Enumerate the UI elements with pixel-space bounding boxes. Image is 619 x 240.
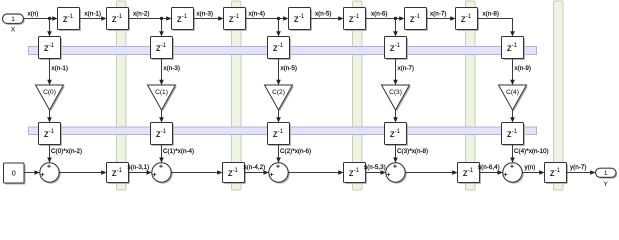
svg-text:X: X [11, 26, 16, 33]
unit delay z-1 top row #5 [289, 8, 313, 32]
wire sum S4 to next [522, 172, 539, 174]
wire constant to sum S0 [24, 172, 35, 174]
unit delay z-1 bottom row #4 [458, 163, 482, 185]
wire gain C(4) to row3 delay [512, 110, 514, 118]
svg-text:x(n-5): x(n-5) [315, 10, 331, 17]
svg-text:1: 1 [604, 170, 608, 177]
svg-text:x(n-1): x(n-1) [52, 65, 68, 72]
lavender band row2 [29, 47, 537, 55]
unit delay z-1 top row #6 [344, 8, 368, 32]
svg-text:y(n): y(n) [525, 164, 536, 171]
wire branch down tap 3 [395, 19, 397, 32]
svg-text:0: 0 [12, 169, 16, 178]
unit delay z-1 row3 tap 1 [151, 123, 175, 147]
svg-text:s(n-5,3): s(n-5,3) [364, 164, 386, 171]
wire gain C(0) to row3 delay [49, 110, 51, 118]
wire top row segment 3 [194, 18, 219, 20]
unit delay z-1 row2 tap 1 [151, 37, 175, 61]
svg-text:x(n-3): x(n-3) [197, 10, 213, 17]
svg-text:s(n-3,1): s(n-3,1) [128, 164, 150, 171]
wire gain C(2) to row3 delay [278, 110, 280, 118]
junction node tap 2 [277, 17, 280, 20]
svg-text:x(n): x(n) [28, 10, 39, 17]
svg-text:x(n-3): x(n-3) [164, 65, 180, 72]
svg-text:C(2)*x(n-6): C(2)*x(n-6) [280, 148, 311, 155]
wire sum S2 to next [288, 172, 338, 174]
gain C(2) [265, 85, 294, 111]
unit delay z-1 row2 tap 4 [502, 37, 526, 61]
unit delay z-1 bottom row #2 [223, 163, 247, 185]
wire row2 to gain C(1) [161, 59, 163, 81]
unit delay z-1 row2 tap 3 [385, 37, 409, 61]
wire top row segment 7 [427, 18, 451, 20]
lavender band row3 [29, 127, 537, 135]
unit delay z-1 top row #4 [224, 8, 248, 32]
unit delay z-1 row3 tap 3 [385, 123, 409, 147]
unit delay z-1 row2 tap 2 [268, 37, 292, 61]
constant 0 [4, 163, 26, 185]
svg-text:x(n-6): x(n-6) [371, 10, 387, 17]
unit delay z-1 top row #8 [456, 8, 480, 32]
green pipeline-stage bar 4 [466, 1, 476, 190]
svg-text:x(n-2): x(n-2) [133, 10, 149, 17]
wire row2 to gain C(0) [49, 59, 51, 81]
sum S3 [386, 163, 407, 184]
svg-text:Y: Y [603, 181, 608, 188]
wire row3 delay to sum S2 [278, 145, 280, 158]
wire row3 delay to sum S0 [49, 145, 51, 158]
green pipeline-stage bar 2 [232, 1, 242, 190]
svg-text:C(3): C(3) [389, 89, 402, 96]
wire top row segment 2 [129, 18, 167, 20]
wire sum S1 to next [171, 172, 217, 174]
wire bottom delay #3 out [366, 172, 381, 174]
junction node tap 1 [160, 17, 163, 20]
svg-text:C(4): C(4) [506, 89, 519, 96]
svg-text:x(n-1): x(n-1) [85, 10, 101, 17]
wire top row segment 4 [246, 18, 284, 20]
unit delay z-1 row3 tap 2 [268, 123, 292, 147]
gain C(1) [148, 85, 177, 111]
svg-text:x(n-5): x(n-5) [281, 65, 297, 72]
unit delay z-1 row2 tap 0 [39, 37, 63, 61]
svg-text:x(n-9): x(n-9) [515, 65, 531, 72]
sum S0 [40, 163, 61, 184]
wire branch down tap 2 [278, 19, 280, 32]
svg-text:C(0)*x(n-2): C(0)*x(n-2) [51, 148, 82, 155]
wire row2 to gain C(4) [512, 59, 514, 81]
wire x(n-8) corner down to row2 tap4 [478, 19, 513, 32]
svg-text:x(n-4): x(n-4) [249, 10, 265, 17]
wire gain C(3) to row3 delay [395, 110, 397, 118]
svg-text:C(4)*x(n-10): C(4)*x(n-10) [514, 148, 549, 155]
svg-text:x(n-8): x(n-8) [483, 10, 499, 17]
svg-text:y(n-7): y(n-7) [570, 164, 586, 171]
green pipeline-stage bar 3 [353, 1, 363, 190]
unit delay z-1 bottom row #3 [344, 163, 368, 185]
svg-text:C(0): C(0) [43, 89, 56, 96]
wire row2 to gain C(3) [395, 59, 397, 81]
unit delay z-1 bottom row #5 [545, 163, 569, 185]
wire sum S0 to next [59, 172, 101, 174]
svg-text:C(1)*x(n-4): C(1)*x(n-4) [163, 148, 194, 155]
gain C(0) [36, 85, 65, 111]
wire bottom delay #1 out [129, 172, 147, 174]
unit delay z-1 top row #7 [405, 8, 429, 32]
unit delay z-1 row3 tap 0 [39, 123, 63, 147]
junction node tap 0 [48, 17, 51, 20]
sum S4 [503, 163, 524, 184]
svg-text:C(1): C(1) [155, 89, 168, 96]
svg-text:s(n-4,2): s(n-4,2) [244, 164, 266, 171]
wire bottom delay #2 out [245, 172, 264, 174]
unit delay z-1 row3 tap 4 [502, 123, 526, 147]
svg-text:x(n-7): x(n-7) [398, 65, 414, 72]
junction node tap 3 [394, 17, 397, 20]
wire gain C(1) to row3 delay [161, 110, 163, 118]
svg-text:C(2): C(2) [272, 89, 285, 96]
gain C(3) [382, 85, 411, 111]
green pipeline-stage bar 1 [117, 1, 127, 190]
svg-text:x(n-7): x(n-7) [430, 10, 446, 17]
unit delay z-1 top row #2 [107, 8, 131, 32]
wire x(n) from inport to first delay [24, 18, 53, 20]
unit delay z-1 top row #1 [58, 8, 82, 32]
wire top row segment 5 [311, 18, 339, 20]
gain C(4) [499, 85, 528, 111]
sum S2 [269, 163, 290, 184]
sum S1 [152, 163, 173, 184]
wire bottom delay #5 out [567, 172, 591, 174]
output port Y (Outport 1) [596, 168, 618, 188]
green pipeline-stage bar 5 [554, 1, 564, 190]
unit delay z-1 top row #3 [172, 8, 196, 32]
wire row3 delay to sum S3 [395, 145, 397, 158]
wire row3 delay to sum S1 [161, 145, 163, 158]
wire branch down tap 0 [49, 19, 51, 32]
svg-text:1: 1 [11, 16, 15, 23]
unit delay z-1 bottom row #1 [107, 163, 131, 185]
wire sum S3 to next [405, 172, 452, 174]
wire row3 delay to sum S4 [512, 145, 514, 158]
wire branch down tap 1 [161, 19, 163, 32]
svg-text:s(n-6,4): s(n-6,4) [478, 164, 500, 171]
wire bottom delay #4 out [480, 172, 498, 174]
input port X (Inport 1) [3, 14, 25, 33]
wire top row segment 1 [80, 18, 102, 20]
wire top row segment 6 [366, 18, 400, 20]
svg-text:C(3)*x(n-8): C(3)*x(n-8) [397, 148, 428, 155]
wire row2 to gain C(2) [278, 59, 280, 81]
